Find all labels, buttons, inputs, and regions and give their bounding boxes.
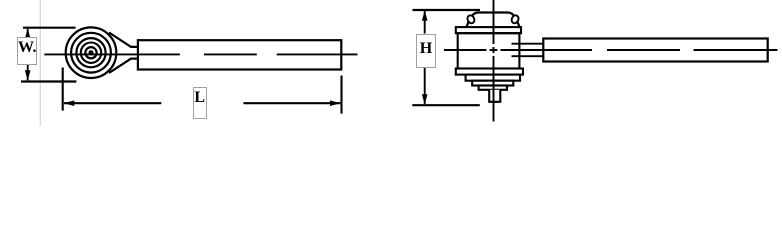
L dimension label box — [193, 87, 208, 119]
stud — [489, 90, 500, 102]
W bottom extension line — [21, 80, 76, 82]
W top extension line — [23, 27, 76, 29]
centerline of left rod — [44, 53, 357, 55]
H bottom extension line — [412, 104, 480, 106]
H dimension line lower segment with arrow — [422, 68, 428, 105]
horizontal centerline of right rod — [444, 49, 777, 51]
rod socket neck lower line — [512, 55, 544, 57]
W dimension line upper segment — [25, 28, 31, 38]
vertical centerline of stud — [493, 0, 495, 122]
tie rod eye ring 3 — [76, 38, 105, 67]
step 2 — [466, 75, 520, 81]
step 3 — [472, 81, 513, 86]
L extension line left — [62, 68, 64, 111]
housing top lip — [456, 27, 521, 33]
L extension line right — [340, 76, 342, 114]
W dimension line lower segment — [25, 65, 31, 81]
H top extension line — [413, 9, 481, 11]
left rod body — [138, 40, 341, 69]
taper upper line — [109, 33, 138, 47]
housing body — [458, 33, 520, 68]
dust boot dome — [466, 13, 520, 28]
tie rod eye center dot — [89, 50, 94, 55]
H dimension line upper segment with arrow — [422, 10, 428, 33]
right rod body — [543, 39, 767, 62]
taper lower line — [109, 59, 138, 73]
tie rod eye ring 4 — [81, 43, 101, 63]
step 4 — [479, 86, 507, 90]
rod socket neck upper line — [512, 43, 544, 45]
L dimension line left segment with arrow — [64, 100, 162, 106]
tie rod eye ring 2 — [71, 33, 111, 73]
W dimension label box — [17, 37, 37, 65]
housing bottom lip — [456, 69, 523, 75]
H dimension label box — [416, 34, 436, 68]
L dimension line right segment with arrow — [243, 100, 340, 106]
faint table border line — [39, 0, 41, 126]
tie rod eye outer circle — [66, 27, 117, 78]
tie rod eye inner bore circle — [85, 47, 96, 58]
